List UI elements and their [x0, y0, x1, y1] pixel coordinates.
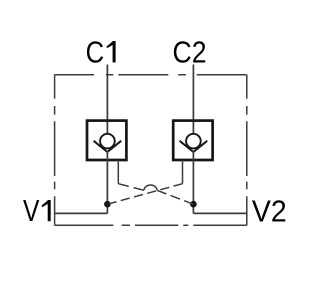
enclosure dashed border right: [246, 75, 248, 226]
enclosure dashed border top: [55, 74, 247, 76]
pilot stub from CV2: [182, 160, 184, 184]
wire V2 horizontal: [193, 212, 246, 214]
pilot line hop over crossing: [144, 185, 157, 190]
check valve CV1 seat: [94, 141, 122, 152]
check valve CV2 ball: [186, 134, 201, 149]
wire CV2 lower vertical: [192, 151, 194, 213]
enclosure dashed border left: [54, 75, 56, 226]
junction node at V1 branch: [104, 201, 111, 208]
check valve CV1 ball: [100, 134, 115, 149]
pilot stub from CV1: [117, 160, 119, 184]
svg-text:V: V: [23, 193, 40, 228]
check valve CV1 box: [87, 121, 126, 160]
pilot line CV1 toward V2 node, second leg: [157, 190, 193, 204]
wire V1 horizontal: [55, 212, 108, 214]
svg-text:V2: V2: [252, 194, 287, 229]
check valve CV2 box: [173, 121, 212, 160]
enclosure dashed border bottom: [55, 224, 247, 226]
label V1: [23, 193, 51, 228]
wire C2 riser: [192, 65, 194, 134]
svg-text:C2: C2: [173, 35, 207, 70]
label C1: [86, 34, 116, 69]
junction node at V2 branch: [190, 201, 197, 208]
check valve CV2 seat: [180, 141, 208, 152]
wire C1 riser: [106, 65, 108, 134]
svg-text:C: C: [86, 34, 105, 69]
wire CV1 lower vertical: [106, 151, 108, 213]
pilot line CV2 to V1 node: [107, 184, 182, 205]
pilot line CV1 toward V2 node, first leg: [118, 184, 144, 191]
